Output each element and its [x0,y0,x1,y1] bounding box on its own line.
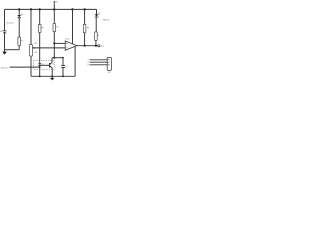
wire rail corner to LED D3 [96,9,98,14]
node dot output x84.7 [84,45,86,47]
wire R2 to +input node [53,32,55,58]
svg-text:R1: R1 [21,40,23,42]
svg-text:IC1: IC1 [65,38,69,40]
wire rail to VR1 [30,9,32,44]
label CON1 [108,72,111,74]
wire heat sensor probe [10,66,40,68]
svg-text:CON1: CON1 [108,72,111,74]
node dot +input tee [53,42,55,44]
wire rail to R2 [53,9,55,23]
label Heat sensor [1,66,10,69]
wire to capacitor [62,58,64,65]
wire top supply rail [5,8,97,10]
label RED LED [103,20,110,22]
connector CON1 pin wires [90,60,107,65]
op-amp IC1 741 [65,38,77,50]
wire left rail upper (battery +) [4,9,6,31]
LED D3 alarm indicator [95,12,101,17]
svg-text:R5: R5 [97,35,99,37]
wire VR1 wiper to op-amp inverting input [34,47,65,49]
node dot capacitor corner [62,57,64,59]
svg-text:10K: 10K [35,52,38,54]
node dot sensor tee [39,66,41,68]
wire capacitor to bottom rail [62,68,64,77]
svg-text:R3: R3 [42,27,44,29]
diode D2 heat sensor [38,63,44,66]
wire bottom rail [31,75,75,77]
wire to op-amp non-inverting input [54,42,65,44]
output terminal circle [98,45,100,47]
wire sensor node horizontal [52,57,63,59]
battery BT1 9V [0,31,8,35]
node dot top rail x54.3 (supply) [53,8,55,10]
dashed box heat sensor enclosure [34,60,54,69]
ground (battery) [2,50,7,55]
node dot bottom rail x52.3 [51,75,53,77]
node dot top rail x72.3 (op-amp V+) [71,8,73,10]
capacitor C1 [61,66,67,69]
wire diode cathode to bottom rail [39,66,41,77]
wire rail to R3 [39,9,41,24]
LED D1 power indicator [17,9,23,17]
node dot bottom rail x39.7 [39,75,41,77]
wire R1 to ground rail [18,46,20,50]
potentiometer VR1 [30,43,38,56]
power flag +9V [53,1,58,10]
label Power indicator [6,21,14,24]
resistor R5 [95,32,100,41]
node dot top rail x84.7 [84,8,86,10]
wire R4 to output [84,33,86,46]
wire left rail lower (battery -) [4,33,6,49]
transistor Q1 [50,63,55,68]
svg-text:C1: C1 [66,66,68,68]
wire rail to R4 [84,9,86,24]
resistor R1 [18,37,23,45]
wire bottom of indicator branch [5,49,20,51]
wire LED to R1 [18,18,20,37]
svg-text:RED LED: RED LED [103,20,110,22]
node dot bottom rail x63 [62,75,64,77]
node dot sensor node [53,57,55,59]
node dot top rail x19 [18,8,20,10]
ground (main) [50,76,54,80]
wire R3 to sensor diode [39,33,41,64]
label OUT [100,46,104,48]
wire VR1 bottom to bottom rail [30,56,32,76]
resistor R4 [83,24,89,33]
wire LED to R5 [95,17,97,32]
wire Q1 collector up [51,58,53,63]
wire diode to Q1 base [40,64,50,66]
connector CON1 pin labels [88,60,91,67]
resistor R2 [53,23,59,31]
wire Q1 emitter to rail [51,68,53,76]
connector CON1 body [107,57,111,70]
wire op-amp V- to bottom rail [74,47,76,77]
svg-text:R4: R4 [87,28,89,30]
svg-text:VR1: VR1 [34,43,37,45]
wire R5 to output [95,40,97,45]
resistor R3 [38,25,43,33]
svg-text:R2: R2 [57,26,59,28]
node dot top rail x39.7 [39,8,41,10]
node dot output x96 [95,45,97,47]
svg-text:Heat sen.: Heat sen. [1,66,10,69]
node dot top rail x31 [30,8,32,10]
wire op-amp V+ [72,9,74,44]
wire op-amp output [77,45,98,47]
